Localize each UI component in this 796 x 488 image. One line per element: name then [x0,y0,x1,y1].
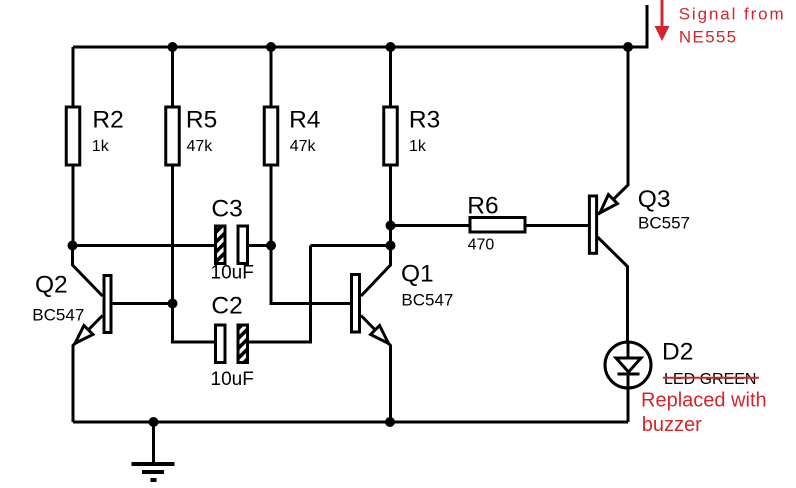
svg-text:Q1: Q1 [401,261,434,288]
svg-text:10uF: 10uF [211,263,254,284]
svg-text:1k: 1k [92,138,110,155]
svg-text:1k: 1k [409,138,427,155]
svg-text:Replaced with: Replaced with [641,390,767,412]
svg-text:R2: R2 [92,107,123,134]
svg-text:47k: 47k [187,138,214,155]
svg-text:C2: C2 [211,293,242,320]
svg-text:10uF: 10uF [211,369,254,390]
svg-text:NE555: NE555 [679,28,737,47]
svg-text:R3: R3 [409,107,440,134]
svg-text:Q2: Q2 [35,272,68,299]
svg-text:LED GREEN: LED GREEN [664,371,756,388]
svg-text:470: 470 [468,237,495,254]
svg-text:Q3: Q3 [638,186,671,213]
svg-text:C3: C3 [211,196,242,223]
svg-text:R5: R5 [186,107,217,134]
svg-text:47k: 47k [290,138,317,155]
svg-text:R4: R4 [289,107,320,134]
svg-text:Signal from: Signal from [679,4,786,23]
svg-text:BC547: BC547 [32,305,84,324]
svg-text:R6: R6 [467,192,498,219]
svg-text:BC557: BC557 [638,214,690,233]
svg-text:D2: D2 [662,339,693,366]
svg-text:buzzer: buzzer [642,414,702,436]
svg-text:BC547: BC547 [401,290,453,309]
